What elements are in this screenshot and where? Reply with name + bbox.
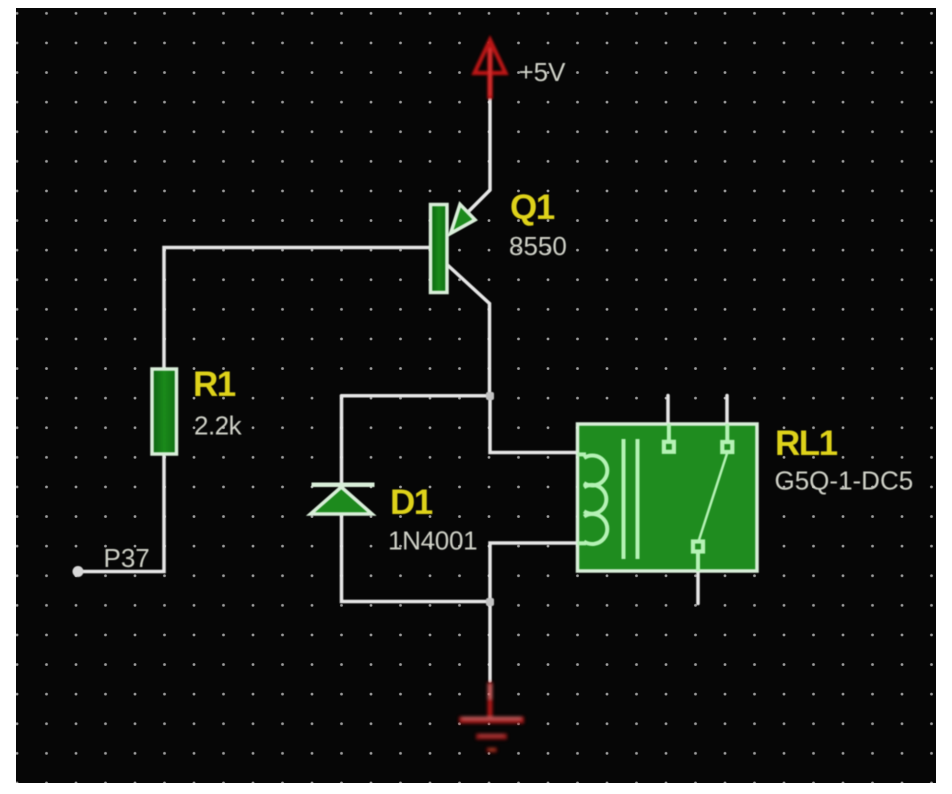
svg-text:P37: P37 [104, 543, 150, 573]
svg-text:R1: R1 [193, 365, 236, 404]
svg-text:Q1: Q1 [510, 188, 555, 227]
svg-text:8550: 8550 [509, 231, 567, 261]
svg-text:D1: D1 [390, 483, 433, 522]
svg-text:+5V: +5V [519, 57, 567, 87]
svg-text:1N4001: 1N4001 [388, 526, 477, 556]
svg-text:2.2k: 2.2k [194, 411, 243, 441]
svg-text:G5Q-1-DC5: G5Q-1-DC5 [775, 466, 914, 496]
svg-text:RL1: RL1 [775, 424, 838, 463]
